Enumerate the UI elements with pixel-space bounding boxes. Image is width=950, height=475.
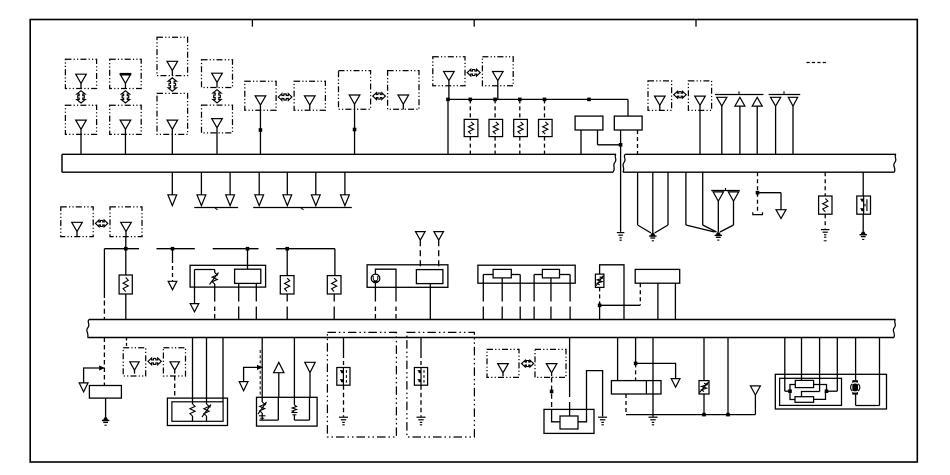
connector box HIb [110, 207, 142, 237]
wire SW1 to ground [862, 214, 864, 231]
wire K1 leg mid [501, 278, 503, 302]
wire A2 inner leg [429, 284, 431, 320]
wire down c [667, 172, 669, 225]
switch SW2 [337, 368, 350, 386]
variable resistor R10 [595, 274, 604, 287]
underline tick 2 [301, 208, 304, 210]
wire SEG1 drop [103, 249, 105, 298]
wire stub A3 [229, 172, 231, 195]
wire B4 leg3 [222, 338, 224, 402]
wire A5 left up [790, 385, 795, 392]
junction SEG1 [124, 247, 128, 251]
wire R6 to bus2 [125, 294, 127, 320]
ground G5 [861, 232, 866, 235]
component box B6 inner [560, 416, 578, 429]
wire R7 to bus2 [286, 294, 288, 302]
connector triangle T7 [728, 192, 738, 201]
ground G9 [339, 416, 348, 418]
connector triangle P4 lower [212, 119, 223, 128]
junction arrow HK [148, 358, 161, 365]
connector triangle HAa [255, 96, 266, 105]
wire f right [758, 192, 782, 194]
connector triangle HGb [695, 96, 706, 105]
connector triangle HCb [398, 95, 409, 104]
wire SEG3 drop [247, 249, 249, 270]
overline row 1 [715, 94, 764, 96]
component box B7 divider [645, 381, 647, 394]
junction arrow HC [373, 93, 386, 100]
junction arrow P3 [168, 78, 176, 91]
switch SW3 [414, 368, 427, 386]
arrow head A6 [311, 195, 320, 206]
resistor R5 [819, 196, 832, 214]
wire B7 leg3 inner [652, 381, 654, 417]
connector triangle T6 [713, 192, 723, 201]
wire A5 leg1 [784, 338, 786, 392]
wire to R7 [286, 249, 288, 276]
wire SEG2 drop [172, 249, 174, 259]
tick row 1 [738, 91, 740, 94]
component box B4 inner [172, 402, 223, 422]
connector box HEb [482, 57, 513, 86]
wire SW3 to ground [420, 385, 422, 416]
junction W1-1 [446, 98, 450, 102]
resistor R7 [280, 276, 294, 294]
wire diag e [703, 225, 717, 232]
component box A2 [367, 265, 448, 288]
connector triangle P2 upper [120, 74, 131, 83]
wire bus2 to W2 [727, 338, 729, 415]
wire K1 bar left [483, 274, 493, 276]
wire B2 left leg [620, 130, 622, 145]
wire to R6 [125, 249, 127, 275]
wire R10 bottom [599, 287, 601, 305]
junction HA [259, 128, 263, 132]
component box A1 [190, 265, 266, 287]
tick row 3 [725, 188, 727, 191]
underline tick 1 [215, 208, 218, 210]
motor M1 [371, 274, 380, 283]
wire diag T7 [720, 225, 734, 232]
wire HC stem [354, 109, 356, 154]
underline group 2 [253, 207, 352, 209]
component box B6 [544, 409, 594, 433]
wire A5 r2 right [814, 391, 826, 399]
connector triangle HOb [546, 364, 557, 373]
junction arrow HO [522, 360, 534, 367]
wire K2 leg mid [550, 278, 552, 302]
wire P1 to bus1 [80, 134, 82, 154]
wire bus2 drop left [103, 338, 105, 386]
connector box HIa [61, 207, 93, 237]
junction A5 right [825, 389, 829, 393]
wire B6 left link [552, 409, 560, 421]
wire HI-b stem [125, 237, 127, 249]
wire diag d [686, 225, 715, 232]
wire HG-b stem [699, 110, 701, 154]
wire A5 leg5 [855, 338, 857, 381]
wire g down [780, 193, 782, 210]
wire Q2 right leg [674, 283, 676, 319]
junction W2-1 [702, 413, 706, 417]
arrow head B5 [239, 382, 248, 391]
wire T7 down [733, 201, 735, 225]
wire A5 leg3 [819, 338, 821, 392]
wire W1 to R3 [519, 99, 521, 119]
connector triangle B5 down [305, 362, 315, 372]
wire B5 inner right U [294, 397, 309, 420]
connector triangle P1 upper [76, 74, 87, 83]
wire SEG4 [276, 248, 335, 250]
wire HE-b stem [497, 86, 499, 100]
wire A5 jog [802, 392, 820, 397]
bus bar J/B No.1 right segment [625, 153, 896, 155]
dashed unit box M [327, 332, 396, 437]
connector box HOa [487, 349, 519, 377]
connector triangle T1 [717, 97, 727, 106]
component box A5 inner [780, 378, 842, 405]
connector box P3 lower [157, 93, 188, 134]
wire diag a [638, 225, 651, 233]
component box A5 [775, 374, 886, 409]
ground G4 [821, 229, 830, 231]
resistor R2 [489, 119, 503, 136]
wire A5 lamp down [855, 395, 857, 406]
connector triangle T4 [771, 97, 781, 106]
wire A2-2 stem [438, 240, 440, 269]
wire B5 leg1 [261, 338, 263, 398]
wire A2 loop [375, 269, 396, 287]
wire A1 pot leg [214, 284, 216, 302]
component box A1 inner [235, 269, 261, 283]
wire SW2 to ground [343, 385, 345, 416]
overline row 3 [711, 190, 740, 192]
wire E stem to bus [447, 99, 449, 154]
connector triangle P2 lower [120, 120, 131, 129]
dashed note line [807, 62, 829, 64]
junction arrow HA [278, 94, 292, 101]
connector triangle HKb [170, 362, 179, 370]
connector triangle HAb [304, 96, 315, 105]
wire stub A1 [171, 172, 173, 195]
wire K1 leg left [482, 275, 484, 302]
wire bus2 to HKa [126, 338, 128, 348]
component box A2 inner [416, 270, 443, 284]
connector box HKa [123, 348, 146, 376]
wire SEG1 [104, 248, 139, 250]
wire R3 to bus1 [519, 137, 521, 155]
wire B5 up stem [278, 373, 280, 398]
wire K1 leg right [519, 275, 521, 302]
wire A1 left leg [194, 270, 196, 295]
wire stub A5 [286, 172, 288, 195]
relay coil K1 [493, 269, 511, 278]
wire A5 leg6 [879, 338, 881, 406]
wire A5 leg2 [801, 338, 803, 381]
arrow junction [99, 365, 104, 370]
wire T3 to bus1 [756, 106, 758, 154]
wire W1 horizontal [448, 98, 628, 100]
connector box HCa [339, 71, 371, 110]
wire f down [757, 193, 759, 214]
wire P3 to bus1 [171, 134, 173, 154]
bus bar J/B No.1 left segment [62, 153, 616, 155]
junction W1-4 [518, 98, 522, 102]
junction W2-2 [726, 413, 730, 417]
resistor R3 [514, 119, 528, 136]
junction SEG4 [285, 247, 289, 251]
wire B6 hook [587, 371, 603, 417]
arrow head A3 [226, 195, 235, 206]
wire W1 to R1 [469, 99, 471, 119]
wire B7 leg1 [617, 338, 619, 381]
ground G2 [650, 233, 655, 236]
connector box HKb [163, 348, 185, 376]
arrow head g [776, 210, 786, 219]
wire B5 inner left U [259, 397, 278, 420]
wire R8 to bus2 [333, 294, 335, 302]
wire down d [685, 172, 687, 225]
arrow head branch [79, 383, 88, 392]
underline group 1 [194, 207, 238, 209]
wire B6 center leg [569, 338, 571, 398]
wire A5 bottom link [856, 405, 880, 407]
ground G3 [716, 232, 721, 235]
arrow head A1 [168, 195, 177, 206]
connector triangle HOa [498, 364, 509, 373]
wire B6 right link [578, 409, 587, 421]
wire W1 to R2 [494, 99, 496, 119]
arrow head SEG2 [168, 281, 177, 290]
wire B5 down stem [309, 373, 311, 398]
connector triangle HCa [349, 95, 360, 104]
wire stub A4 [258, 172, 260, 195]
wire R2 to bus1 [494, 137, 496, 155]
arrow head A2 [197, 195, 206, 206]
wire A5 leg4 [836, 338, 838, 392]
ground G7 [598, 416, 607, 418]
connector triangle HKa [130, 362, 139, 370]
resistor A5-R1 [795, 380, 813, 387]
switch SW1 [857, 196, 871, 214]
connector box P1 upper [65, 59, 96, 88]
wire SEG1 drop dashed [103, 301, 105, 320]
border tick 1 [251, 20, 253, 27]
wire stub f [757, 172, 759, 193]
wire T5 to bus1 [792, 106, 794, 154]
wire A1 inner leg 2 [255, 283, 257, 301]
connector triangle P1 lower [76, 120, 87, 129]
tick row 2 [783, 91, 785, 94]
junction B7 [634, 362, 638, 366]
connector box HGb [688, 81, 711, 111]
wire W2 [626, 414, 755, 416]
junction arrow HI [95, 220, 107, 227]
thermistor R12 [206, 398, 208, 404]
wire stub A6 [315, 172, 317, 195]
wire K1 bar right [511, 274, 520, 276]
resistor R8 [327, 276, 341, 294]
arrow head A4 [255, 195, 264, 206]
ground G10 [417, 416, 426, 418]
wire R4 to bus1 [544, 137, 546, 155]
junction arrow P2 [121, 91, 129, 103]
wire T1 to bus1 [721, 106, 723, 154]
wire B7 branch [636, 363, 676, 378]
connector triangle HEb [493, 72, 504, 81]
wire W2 up [754, 395, 756, 415]
wire HA stem [259, 110, 261, 154]
wire down b [652, 172, 654, 233]
wire W1 to R4 [544, 99, 546, 119]
connector box P3 upper [157, 37, 188, 75]
junction W1-2 [469, 98, 473, 102]
connector triangle T2 [735, 97, 745, 106]
wire B2 right leg [637, 130, 639, 154]
wire B1 to center node [598, 144, 621, 146]
wire K2 bar right [560, 274, 571, 276]
junction arrow HE [467, 69, 480, 76]
junction arrow P4 [213, 90, 221, 103]
connector triangle A2-1 [416, 232, 426, 241]
wire node to box Q2 [600, 304, 641, 306]
connector triangle HEa [444, 72, 455, 81]
arrow head A1 [190, 304, 199, 312]
connector box P4 upper [202, 60, 233, 88]
terminal bar f [753, 212, 763, 214]
variable resistor R9 [699, 381, 709, 394]
wire R10 top loop [600, 265, 624, 320]
component box A3 [478, 265, 575, 283]
wire down a [637, 172, 639, 225]
component box B3 [89, 386, 121, 399]
junction R10 [598, 304, 602, 308]
wire A5 r1 right [814, 385, 827, 392]
ground G6 [103, 417, 108, 420]
ground G4 speck [824, 240, 827, 242]
wire R9 to W2 [703, 394, 705, 415]
wire W1 drop to box B2 [627, 99, 629, 116]
border tick 2 [473, 20, 475, 27]
connector box P1 lower [65, 105, 96, 134]
connector triangle P3 upper [167, 61, 178, 70]
wire diag c [655, 225, 668, 233]
junction node f [756, 191, 760, 195]
wire B4 leg2 [206, 338, 208, 399]
wire B3 to ground [105, 398, 107, 417]
wire A5 legA link [785, 390, 790, 392]
wire P4 to bus1 [216, 133, 218, 154]
component box B2 [614, 116, 642, 130]
relay coil K2 [542, 269, 559, 278]
resistor R6 [119, 275, 132, 294]
junction W1-3 [493, 98, 497, 102]
wire down e [702, 172, 704, 225]
arrow head B7 [671, 379, 680, 388]
wire B7 leg2 [635, 338, 637, 364]
wire K2 leg right [569, 275, 571, 302]
wire B4 leg1 [192, 338, 194, 399]
connector box HCb [388, 71, 419, 110]
connector box HEa [433, 57, 465, 86]
wire B7 out leg [625, 394, 627, 415]
wire M leg [343, 338, 345, 355]
component box B1 [575, 116, 603, 130]
wire HKb stem [174, 376, 176, 398]
wire A1 inner top [195, 269, 215, 271]
wire R1 to bus1 [469, 137, 471, 155]
wire Q2 mid leg [657, 283, 659, 319]
connector triangle HGa [655, 96, 666, 105]
connector triangle P4 upper [212, 73, 223, 82]
component box B5 [257, 397, 318, 426]
wire R5 to ground [824, 214, 826, 229]
wire HOb stem [551, 377, 553, 409]
junction W1-5 [543, 98, 547, 102]
wire branch left [84, 368, 104, 383]
wire A5 right link [827, 390, 838, 392]
wire R9 leg [703, 338, 705, 381]
arrow head A7 [341, 195, 350, 206]
junction arrow P1 [77, 91, 85, 103]
connector triangle B5 up [274, 362, 284, 372]
wire SEG3 [213, 248, 259, 250]
wire R10 node down [599, 305, 601, 319]
wire A1 inner leg 1 [238, 283, 240, 301]
resistor R11 [192, 398, 194, 404]
wire B5 leg2 [293, 338, 295, 398]
wire to R5 [824, 172, 826, 196]
connector triangle HIb [121, 222, 132, 231]
resistor R1 [464, 119, 478, 136]
arrow junction B5 [257, 365, 262, 370]
wire B1 left leg [580, 130, 582, 154]
wire SEG2 drop dashed [172, 259, 174, 281]
variable resistor A1 [214, 270, 216, 273]
arrow head A5 [283, 195, 292, 206]
connector triangle T3 [752, 97, 762, 106]
connector box P4 lower [202, 105, 233, 133]
connector box HGa [648, 81, 672, 111]
wire SEG4 drop [334, 249, 336, 276]
resistor A5-R2 [795, 397, 814, 403]
thermistor R13 [261, 397, 263, 402]
dashed unit box N [407, 332, 475, 437]
resistor R14 [293, 397, 295, 405]
component box Q2 [635, 269, 680, 283]
connector triangle HIa [72, 222, 83, 231]
wire N leg [420, 338, 422, 355]
wire K2 leg left [533, 275, 535, 302]
ground G8 [649, 416, 658, 418]
wire A2 motor leg [374, 283, 376, 302]
wire B1 right leg [597, 130, 599, 145]
wire T6 down [717, 201, 719, 232]
component box B7 [611, 381, 661, 394]
wire stub A7 [344, 172, 346, 195]
lamp L1 [852, 380, 858, 394]
ground G1 [617, 232, 625, 234]
junction SEG2 [171, 247, 175, 251]
junction A5 left [788, 389, 792, 393]
connector box HAa [245, 81, 276, 110]
wire branch B5 [244, 367, 262, 381]
connector triangle A2-2 [434, 232, 444, 241]
junction SEG3 [246, 247, 250, 251]
wire stub A2 [200, 172, 202, 195]
wire SEG2 [157, 248, 195, 250]
wire K2 bar left [534, 274, 542, 276]
